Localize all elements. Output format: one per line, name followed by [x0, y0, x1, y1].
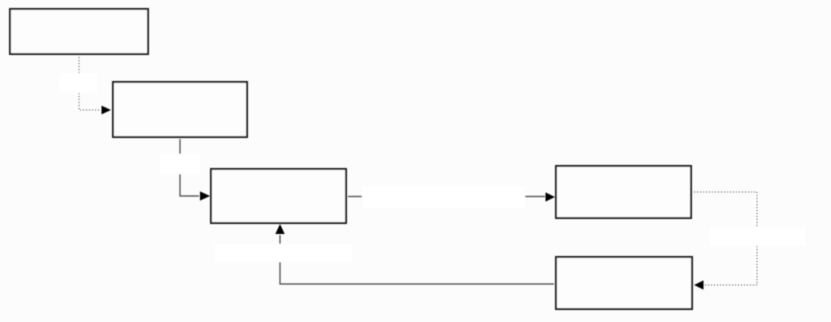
- wire dotted from box1 bottom to box2 left: [79, 57, 101, 110]
- wire solid from box3 right to box4 left: [348, 196, 545, 198]
- label mask L1 over box2-box3 wire: [160, 154, 200, 174]
- label mask L2 under box3 over feedback wire: [214, 244, 352, 262]
- wire dotted from box4 right to box5 right: [694, 192, 757, 285]
- box 2: [113, 82, 247, 137]
- box 4 (right upper): [556, 166, 691, 218]
- arrowhead into box5 right (pointing left): [694, 280, 704, 289]
- box 1 (top-left): [10, 9, 148, 54]
- label mask L4 over right dotted wire: [709, 227, 806, 246]
- label mask L3 over box3-box4 wire: [362, 186, 525, 209]
- box 5 (right lower): [556, 257, 692, 309]
- arrowhead into box2 left: [102, 106, 112, 115]
- wire solid from box2 bottom to box3 left: [180, 139, 199, 196]
- box 3 (center): [211, 169, 346, 223]
- label mask L0 over dotted wire: [59, 73, 98, 93]
- arrowhead into box4 left: [546, 192, 556, 201]
- wire solid feedback from box5 left to box3 bottom: [280, 235, 554, 284]
- arrowhead into box3 left: [200, 191, 210, 200]
- arrowhead into box3 bottom (pointing up): [275, 224, 284, 234]
